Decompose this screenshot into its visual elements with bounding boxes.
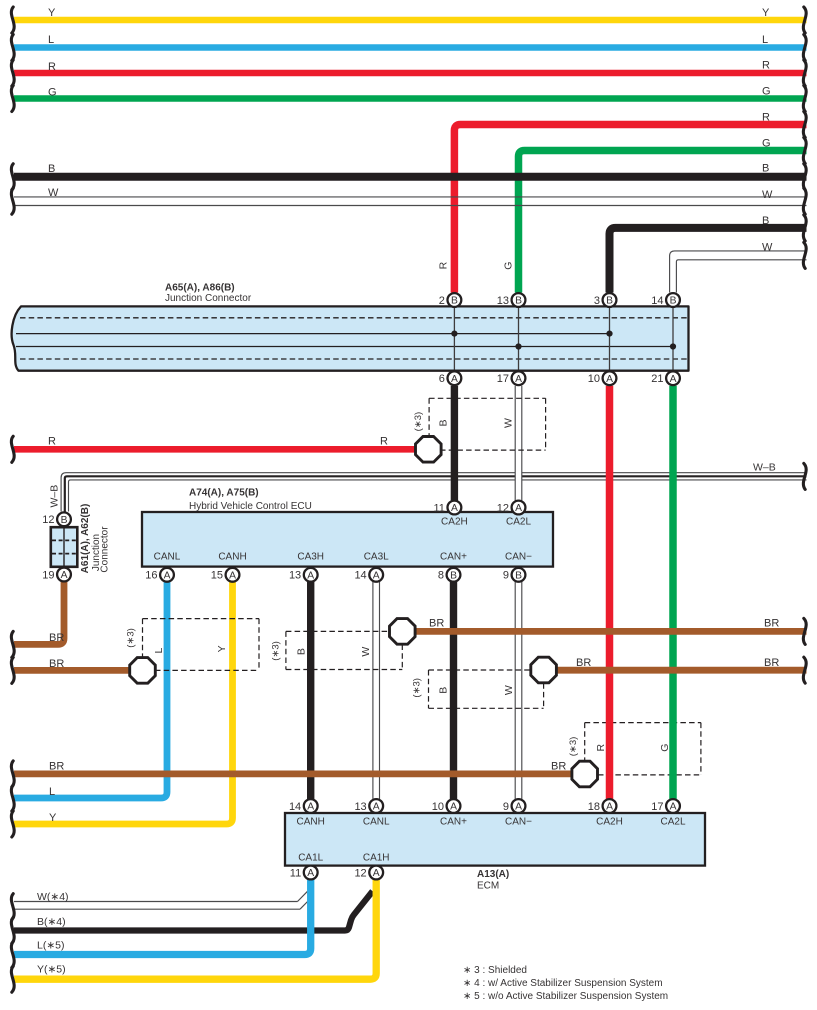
- svg-text:R: R: [762, 112, 770, 124]
- svg-text:B: B: [670, 296, 677, 307]
- svg-text:G: G: [48, 86, 57, 98]
- svg-text:14: 14: [354, 570, 366, 582]
- svg-text:Y: Y: [762, 7, 770, 19]
- svg-text:12: 12: [354, 867, 366, 879]
- svg-text:Junction Connector: Junction Connector: [165, 293, 252, 304]
- svg-text:A74(A), A75(B): A74(A), A75(B): [189, 488, 259, 499]
- svg-text:B: B: [295, 648, 307, 655]
- svg-text:R: R: [595, 743, 607, 751]
- svg-text:A: A: [606, 374, 613, 385]
- svg-text:A: A: [307, 802, 314, 813]
- svg-text:(∗3): (∗3): [271, 641, 282, 661]
- svg-text:13: 13: [289, 570, 301, 582]
- svg-text:17: 17: [651, 801, 663, 813]
- svg-text:CA1L: CA1L: [298, 853, 323, 864]
- svg-text:18: 18: [588, 801, 600, 813]
- svg-text:B(∗4): B(∗4): [37, 916, 66, 928]
- svg-text:A: A: [606, 802, 613, 813]
- svg-text:L(∗5): L(∗5): [37, 940, 64, 952]
- svg-text:W(∗4): W(∗4): [37, 891, 69, 903]
- svg-text:B: B: [515, 571, 522, 582]
- svg-text:A: A: [229, 571, 236, 582]
- svg-text:L: L: [48, 34, 54, 46]
- svg-text:CA3L: CA3L: [364, 552, 389, 563]
- svg-text:A: A: [373, 802, 380, 813]
- svg-text:Y: Y: [48, 7, 56, 19]
- svg-text:BR: BR: [764, 617, 779, 629]
- svg-text:B: B: [61, 515, 68, 526]
- svg-text:11: 11: [433, 502, 444, 514]
- svg-text:A: A: [451, 374, 458, 385]
- svg-text:16: 16: [145, 570, 157, 582]
- svg-text:L: L: [762, 34, 768, 46]
- svg-text:A: A: [307, 868, 314, 879]
- svg-text:R: R: [762, 60, 770, 72]
- svg-text:A: A: [450, 802, 457, 813]
- svg-text:∗ 4 : w/ Active Stabilizer Sus: ∗ 4 : w/ Active Stabilizer Suspension Sy…: [463, 978, 663, 989]
- svg-text:(∗3): (∗3): [126, 628, 137, 648]
- svg-text:L: L: [49, 786, 55, 798]
- svg-text:11: 11: [290, 867, 301, 879]
- svg-text:A: A: [373, 868, 380, 879]
- svg-text:10: 10: [588, 373, 600, 385]
- svg-text:(∗3): (∗3): [568, 737, 579, 757]
- svg-text:A: A: [61, 570, 68, 581]
- svg-text:CANH: CANH: [297, 816, 325, 827]
- svg-text:CAN−: CAN−: [505, 816, 532, 827]
- svg-text:19: 19: [42, 569, 54, 581]
- svg-text:BR: BR: [49, 632, 64, 644]
- svg-text:R: R: [48, 61, 56, 73]
- svg-text:(∗3): (∗3): [411, 678, 422, 698]
- svg-text:B: B: [606, 296, 613, 307]
- svg-text:B: B: [515, 296, 522, 307]
- svg-text:W: W: [762, 189, 773, 201]
- svg-text:A: A: [373, 571, 380, 582]
- svg-text:ECM: ECM: [477, 880, 499, 891]
- svg-text:G: G: [502, 262, 514, 270]
- svg-text:A: A: [670, 374, 677, 385]
- svg-text:A: A: [451, 503, 458, 514]
- svg-text:Hybrid Vehicle Control ECU: Hybrid Vehicle Control ECU: [189, 501, 312, 512]
- svg-text:CA2H: CA2H: [441, 517, 468, 528]
- svg-text:14: 14: [651, 295, 663, 307]
- svg-text:14: 14: [289, 801, 301, 813]
- svg-text:B: B: [48, 163, 55, 175]
- svg-text:B: B: [762, 215, 769, 227]
- svg-text:CA1H: CA1H: [363, 853, 390, 864]
- svg-text:12: 12: [42, 514, 54, 526]
- svg-text:B: B: [450, 571, 457, 582]
- svg-text:8: 8: [438, 570, 444, 582]
- svg-text:∗ 3 : Shielded: ∗ 3 : Shielded: [463, 965, 527, 976]
- svg-text:Y: Y: [49, 812, 57, 824]
- svg-text:BR: BR: [764, 657, 779, 669]
- svg-text:W: W: [503, 685, 515, 695]
- svg-text:Connector: Connector: [100, 526, 111, 573]
- svg-text:CANH: CANH: [218, 552, 246, 563]
- svg-text:13: 13: [354, 801, 366, 813]
- svg-text:G: G: [659, 744, 671, 752]
- svg-text:G: G: [762, 137, 771, 149]
- svg-text:A: A: [515, 374, 522, 385]
- svg-text:A65(A), A86(B): A65(A), A86(B): [165, 282, 235, 293]
- svg-text:17: 17: [497, 373, 509, 385]
- svg-text:6: 6: [439, 373, 445, 385]
- svg-text:CA2L: CA2L: [660, 816, 685, 827]
- svg-text:W–B: W–B: [753, 462, 776, 474]
- svg-text:10: 10: [432, 801, 444, 813]
- svg-text:B: B: [762, 162, 769, 174]
- svg-text:B: B: [451, 296, 458, 307]
- svg-text:12: 12: [497, 502, 509, 514]
- svg-text:Y(∗5): Y(∗5): [37, 963, 66, 975]
- svg-text:B: B: [438, 419, 450, 426]
- svg-text:L: L: [153, 648, 165, 654]
- svg-text:W–B: W–B: [48, 485, 60, 508]
- svg-text:3: 3: [594, 295, 600, 307]
- svg-text:A: A: [515, 503, 522, 514]
- svg-text:CANL: CANL: [154, 552, 181, 563]
- svg-text:A: A: [164, 571, 171, 582]
- svg-text:(∗3): (∗3): [413, 412, 424, 432]
- svg-text:R: R: [380, 436, 388, 448]
- svg-text:A: A: [515, 802, 522, 813]
- svg-text:R: R: [437, 261, 449, 269]
- svg-text:BR: BR: [49, 760, 64, 772]
- svg-text:W: W: [48, 187, 59, 199]
- svg-text:R: R: [48, 436, 56, 448]
- svg-text:A: A: [307, 571, 314, 582]
- svg-text:∗ 5 : w/o Active Stabilizer Su: ∗ 5 : w/o Active Stabilizer Suspension S…: [463, 991, 668, 1002]
- svg-text:A13(A): A13(A): [477, 869, 509, 880]
- svg-text:CA2L: CA2L: [506, 517, 531, 528]
- svg-text:15: 15: [211, 570, 223, 582]
- svg-text:CA3H: CA3H: [297, 552, 324, 563]
- svg-text:9: 9: [503, 570, 509, 582]
- svg-text:W: W: [762, 241, 773, 253]
- svg-text:BR: BR: [429, 617, 444, 629]
- svg-text:CAN+: CAN+: [440, 552, 467, 563]
- svg-text:A61(A), A62(B): A61(A), A62(B): [80, 504, 91, 574]
- svg-text:W: W: [360, 647, 372, 657]
- svg-text:CA2H: CA2H: [596, 816, 623, 827]
- svg-text:9: 9: [503, 801, 509, 813]
- svg-text:BR: BR: [551, 761, 566, 773]
- svg-text:G: G: [762, 85, 771, 97]
- svg-text:B: B: [437, 687, 449, 694]
- svg-text:A: A: [670, 802, 677, 813]
- svg-text:2: 2: [439, 295, 445, 307]
- svg-text:CAN+: CAN+: [440, 816, 467, 827]
- svg-text:21: 21: [651, 373, 663, 385]
- svg-text:Y: Y: [216, 645, 228, 652]
- svg-text:CAN−: CAN−: [505, 552, 532, 563]
- svg-text:CANL: CANL: [363, 816, 390, 827]
- svg-text:BR: BR: [576, 657, 591, 669]
- svg-text:W: W: [503, 418, 515, 428]
- svg-text:13: 13: [497, 295, 509, 307]
- svg-text:BR: BR: [49, 658, 64, 670]
